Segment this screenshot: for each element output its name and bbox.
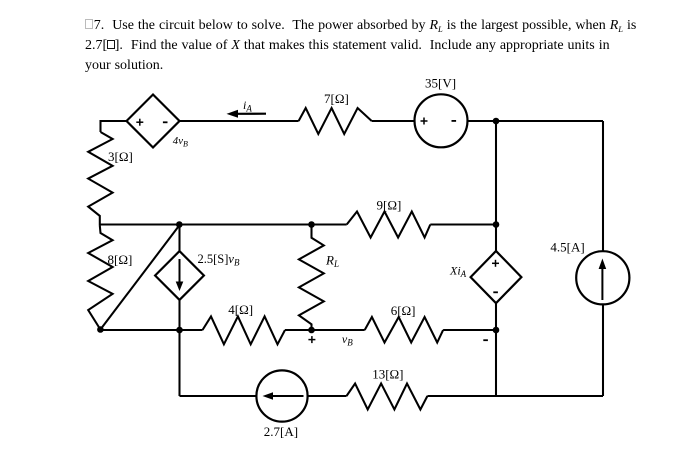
svg-text:XiA: XiA xyxy=(449,264,467,280)
svg-text:35[V]: 35[V] xyxy=(425,76,456,91)
svg-text:4[Ω]: 4[Ω] xyxy=(228,302,253,317)
svg-text:4.5[A]: 4.5[A] xyxy=(550,240,584,255)
svg-text:4vB: 4vB xyxy=(173,135,188,149)
svg-text:iA: iA xyxy=(243,98,252,114)
svg-text:RL: RL xyxy=(325,253,339,270)
svg-text:7[Ω]: 7[Ω] xyxy=(324,91,349,106)
svg-text:9[Ω]: 9[Ω] xyxy=(377,198,402,213)
svg-text:6[Ω]: 6[Ω] xyxy=(391,303,416,318)
svg-text:13[Ω]: 13[Ω] xyxy=(372,367,403,382)
svg-text:vB: vB xyxy=(342,332,353,348)
svg-text:2.5[S]vB: 2.5[S]vB xyxy=(198,252,240,268)
svg-text:8[Ω]: 8[Ω] xyxy=(108,252,133,267)
svg-text:3[Ω]: 3[Ω] xyxy=(108,149,133,164)
svg-text:2.7[A]: 2.7[A] xyxy=(264,424,298,439)
